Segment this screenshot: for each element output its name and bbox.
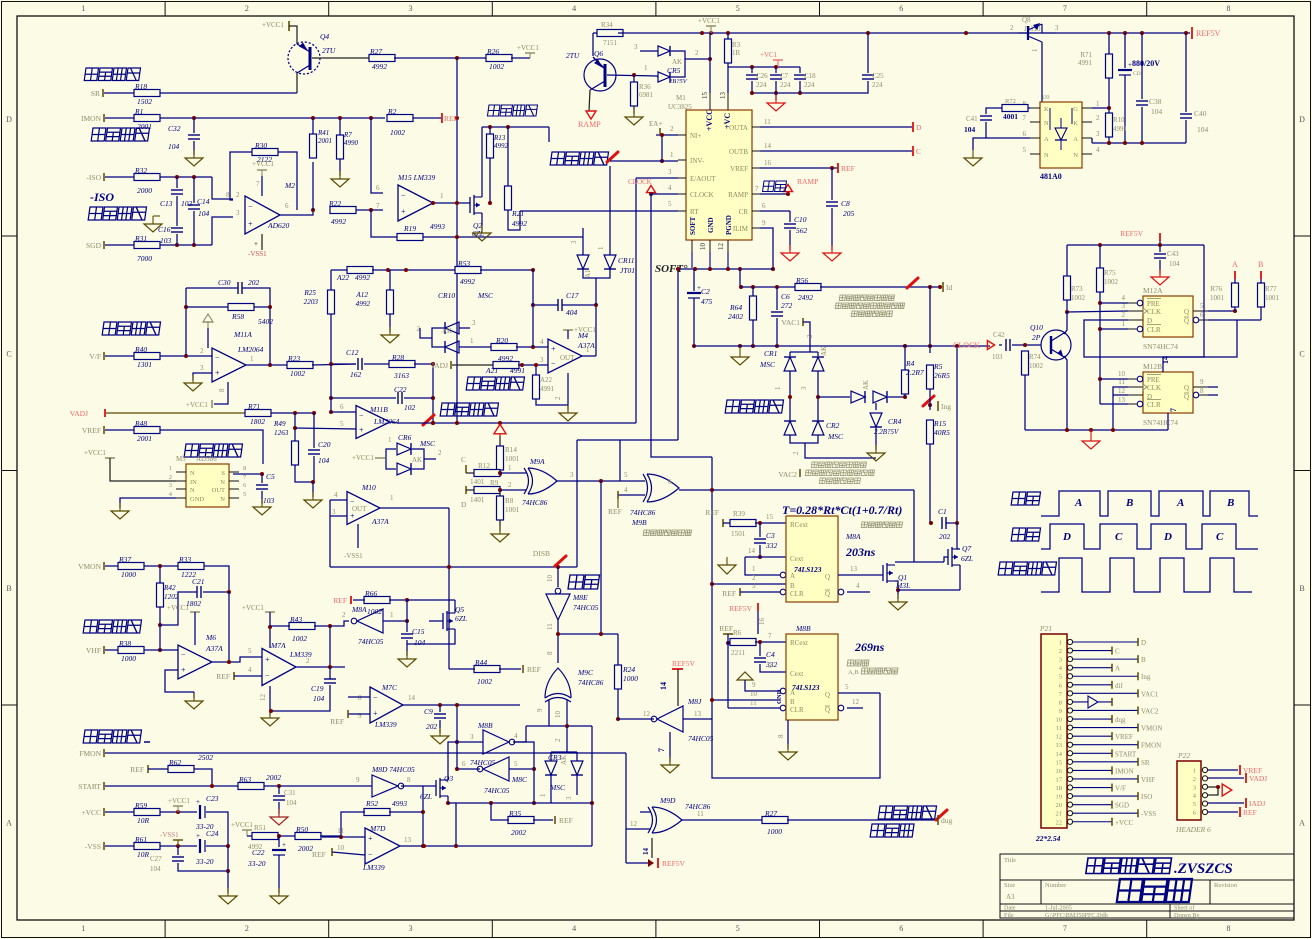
svg-text:Q: Q xyxy=(1184,317,1189,325)
wire row127 xyxy=(482,126,549,128)
wire VF wire xyxy=(105,355,134,357)
svg-text:SOFT: SOFT xyxy=(689,216,697,235)
port IADJ P22 tick xyxy=(1245,798,1247,808)
svg-text:4: 4 xyxy=(572,4,576,13)
wire C1 right xyxy=(946,522,957,524)
junction xyxy=(594,303,598,307)
op-amp M11A xyxy=(212,348,246,382)
svg-text:4001: 4001 xyxy=(1003,112,1018,121)
svg-text:R9: R9 xyxy=(490,479,499,487)
wire C27 col xyxy=(177,846,179,855)
wire R43 left xyxy=(270,625,290,627)
wire R52 right xyxy=(389,811,423,813)
svg-text:C20: C20 xyxy=(318,440,331,449)
wire ISO to pin2 xyxy=(212,177,233,199)
power +VCC1 R26 xyxy=(517,44,539,58)
svg-text:C9: C9 xyxy=(424,707,433,716)
resistor R52 xyxy=(364,809,390,816)
wire CR pin wire xyxy=(760,210,790,212)
junction xyxy=(158,648,162,652)
123a CLR bubble xyxy=(780,589,786,595)
arrow up 123b xyxy=(737,672,753,680)
svg-text:C1: C1 xyxy=(938,507,947,516)
label CJK -ISO2 xyxy=(91,189,93,191)
op-amp M4 xyxy=(548,339,582,373)
junction xyxy=(676,267,680,271)
svg-text:2000: 2000 xyxy=(137,186,152,195)
wire row590 xyxy=(898,589,960,591)
svg-text:Q: Q xyxy=(825,691,830,699)
wire VREF row xyxy=(160,430,263,464)
wire R8 col xyxy=(499,490,501,498)
IC U1 UC3825 box xyxy=(686,110,752,240)
svg-text:Cext: Cext xyxy=(790,555,803,563)
svg-text:R42: R42 xyxy=(163,584,176,592)
svg-text:1000: 1000 xyxy=(121,654,136,663)
capacitor CD1 xyxy=(1118,61,1132,75)
wire M11B out xyxy=(390,422,398,423)
M12A PRE bubble xyxy=(1137,300,1143,306)
capacitor C14 xyxy=(188,205,200,209)
svg-text:5: 5 xyxy=(736,4,740,13)
capacitor C30 xyxy=(238,282,242,294)
ground row345 stem xyxy=(739,346,741,349)
svg-text:2: 2 xyxy=(245,4,249,13)
svg-text:26R5: 26R5 xyxy=(934,371,950,380)
svg-text:3: 3 xyxy=(409,924,413,933)
wire R7 top xyxy=(339,118,341,135)
svg-text:Q: Q xyxy=(825,590,830,598)
svg-text:74HC86: 74HC86 xyxy=(578,678,604,687)
junction xyxy=(1140,141,1144,145)
svg-text:10R: 10R xyxy=(137,850,150,859)
svg-text:START: START xyxy=(78,782,101,791)
wire M4 minus gnd xyxy=(567,373,569,410)
junction xyxy=(903,395,907,399)
svg-text:+VCC: +VCC xyxy=(81,808,101,817)
IC U0 opto box xyxy=(1040,102,1082,168)
wire M4 vcc stem xyxy=(567,330,569,339)
power +VCC1 CR6 xyxy=(352,454,385,462)
wire left loop col xyxy=(329,500,331,567)
svg-text:4: 4 xyxy=(334,491,338,499)
wire EAOUT wire xyxy=(636,177,678,179)
wire R72 left xyxy=(986,108,1002,114)
xor gate M9C xyxy=(545,668,571,702)
svg-text:C25: C25 xyxy=(872,72,884,80)
xor gate M9A xyxy=(524,468,557,494)
wire R5 bot xyxy=(929,389,931,398)
svg-text:2211: 2211 xyxy=(731,649,746,657)
junction xyxy=(488,201,492,205)
junction xyxy=(929,521,933,525)
svg-text:A: A xyxy=(6,818,12,827)
P22 red arrow xyxy=(1222,784,1232,796)
svg-text:6: 6 xyxy=(376,184,380,192)
svg-text:File: File xyxy=(1004,912,1014,919)
svg-text:40R5: 40R5 xyxy=(934,428,950,437)
wire R62 left xyxy=(148,768,168,770)
junction xyxy=(866,31,870,35)
wire START wire xyxy=(105,785,238,787)
wire VF row xyxy=(160,355,212,357)
svg-text:M8C: M8C xyxy=(511,775,528,784)
wire R6 left xyxy=(728,634,731,643)
svg-text:224: 224 xyxy=(804,81,815,89)
ground C43 red xyxy=(1151,269,1169,285)
junction xyxy=(176,810,180,814)
wire CR11b top wire xyxy=(609,166,611,255)
junction xyxy=(955,344,959,348)
REF tick R44 xyxy=(522,665,524,673)
svg-text:3: 3 xyxy=(565,796,573,800)
port REF5V rail tick xyxy=(1191,27,1193,39)
junction xyxy=(726,641,730,645)
wire C7 bot xyxy=(775,81,777,100)
svg-text:M10: M10 xyxy=(361,483,376,492)
svg-text:A,B: A,B xyxy=(848,669,859,676)
svg-text:15: 15 xyxy=(766,513,774,521)
svg-text:C: C xyxy=(1299,349,1304,358)
svg-text:MSC: MSC xyxy=(827,432,844,441)
wire SOFT row xyxy=(678,268,773,270)
resistor R51 xyxy=(252,833,278,840)
junction xyxy=(311,116,315,120)
wire C25 col xyxy=(867,33,869,73)
svg-text:2: 2 xyxy=(245,924,249,933)
op-amp M2 AD620 xyxy=(245,196,280,234)
xor gate M9D xyxy=(648,807,682,833)
junction xyxy=(692,344,696,348)
svg-text:1: 1 xyxy=(1059,640,1062,647)
wire R2 to REF xyxy=(413,117,441,119)
wire C6 bot xyxy=(776,318,778,346)
wire C31 col xyxy=(278,786,280,794)
svg-text:+VCC1: +VCC1 xyxy=(84,449,106,457)
svg-text:R10: R10 xyxy=(1113,116,1125,124)
junction xyxy=(708,57,712,61)
wire R25 top xyxy=(331,269,348,271)
REF tick R6 xyxy=(723,633,733,635)
svg-text:+: + xyxy=(265,655,270,664)
svg-text:2002: 2002 xyxy=(266,773,281,782)
svg-text:4992: 4992 xyxy=(355,273,370,282)
svg-text:REF: REF xyxy=(722,589,736,598)
svg-text:224: 224 xyxy=(756,81,767,89)
svg-text:3: 3 xyxy=(752,582,756,590)
svg-text:OUT: OUT xyxy=(212,487,225,494)
svg-text:1: 1 xyxy=(597,246,605,250)
UC3825 pin15 stub xyxy=(709,93,711,110)
wire C20 col xyxy=(313,413,315,448)
ground caps red xyxy=(767,95,785,111)
svg-text:7: 7 xyxy=(1063,4,1067,13)
label CJK guo-ya-bao-hu xyxy=(83,620,141,633)
svg-text:R20: R20 xyxy=(495,336,508,345)
wire CR4 to R4 xyxy=(888,396,905,398)
svg-text:-VSS1: -VSS1 xyxy=(248,250,267,258)
resistor A12 xyxy=(387,290,394,314)
svg-text:1002: 1002 xyxy=(489,62,504,71)
note 123b pre xyxy=(847,660,869,666)
wire col592 xyxy=(591,726,593,846)
wire 123a Q out xyxy=(838,574,883,576)
junction xyxy=(710,488,714,492)
svg-text:Q5: Q5 xyxy=(455,605,464,614)
wire R21 bot to RT xyxy=(508,210,520,230)
wire CLR row 123a xyxy=(740,591,780,593)
junction xyxy=(405,619,409,623)
svg-text:A: A xyxy=(1115,665,1120,673)
wire C4 bot xyxy=(760,664,786,672)
svg-text:1: 1 xyxy=(1031,48,1039,52)
svg-text:11: 11 xyxy=(764,118,771,126)
svg-text:A37A: A37A xyxy=(205,644,223,653)
wire R27 to R26 xyxy=(394,57,487,59)
wire R3 bot xyxy=(727,63,729,67)
svg-text:R48: R48 xyxy=(134,419,147,428)
resistor R9 xyxy=(474,487,500,494)
junction xyxy=(498,421,502,425)
wire col534 down xyxy=(533,769,535,803)
svg-text:332: 332 xyxy=(765,541,778,550)
junction xyxy=(1158,243,1162,247)
svg-text:CLK: CLK xyxy=(1147,308,1161,316)
wire VHF wire xyxy=(105,649,118,651)
wire CLOCK wire xyxy=(651,193,678,195)
wire C13-C16 col xyxy=(176,196,178,226)
wire DISB row xyxy=(330,566,577,568)
junction xyxy=(192,175,196,179)
wire A22v col xyxy=(535,365,537,375)
junction xyxy=(738,344,742,348)
svg-text:3: 3 xyxy=(200,364,204,372)
port REF5V M9D tick xyxy=(657,858,659,868)
wire CR6 area wires xyxy=(595,278,597,305)
svg-text:-VSS: -VSS xyxy=(85,842,101,851)
svg-text:9: 9 xyxy=(1059,708,1062,715)
wire C32 to gnd xyxy=(193,141,195,155)
svg-text:+VCC1: +VCC1 xyxy=(167,604,189,612)
junction xyxy=(1098,301,1102,305)
wire C2 col top xyxy=(693,269,695,291)
svg-text:5: 5 xyxy=(668,200,672,208)
junction xyxy=(896,588,900,592)
junction xyxy=(227,660,231,664)
MOSFET Q1 xyxy=(883,563,895,583)
svg-text:13: 13 xyxy=(719,92,727,100)
wire C18 bot xyxy=(799,81,801,93)
svg-text:3: 3 xyxy=(169,482,172,489)
svg-text:1: 1 xyxy=(774,386,782,390)
junction xyxy=(531,345,535,349)
wire R66 left xyxy=(353,599,365,601)
svg-text:8: 8 xyxy=(358,694,362,702)
svg-text:2502: 2502 xyxy=(198,753,213,762)
resistor R33 xyxy=(178,555,204,579)
opto pin stubs xyxy=(1030,107,1040,109)
wire C40 col xyxy=(1185,33,1187,112)
wire Q10 collector xyxy=(1064,312,1067,334)
wire M7A minus in xyxy=(234,675,262,677)
svg-text:A22: A22 xyxy=(540,376,553,384)
port C tick xyxy=(912,146,914,156)
label CJK chao-qian xyxy=(1011,528,1040,541)
svg-text:Q4: Q4 xyxy=(320,32,329,41)
svg-text:2002: 2002 xyxy=(511,828,526,837)
svg-text:SR: SR xyxy=(91,89,100,98)
svg-text:+VCC1: +VCC1 xyxy=(252,160,274,168)
svg-text:10: 10 xyxy=(554,711,562,719)
svg-text:1: 1 xyxy=(169,465,172,472)
svg-text:2402: 2402 xyxy=(728,312,743,321)
junction xyxy=(498,488,502,492)
diode CR5b xyxy=(658,72,670,82)
wire R44 left xyxy=(449,668,475,670)
junction xyxy=(431,201,435,205)
wire VSS row xyxy=(160,845,197,847)
wire C20 bot xyxy=(313,456,315,482)
junction xyxy=(405,598,409,602)
junction xyxy=(386,268,390,272)
M12A Qb bubble xyxy=(1193,317,1199,323)
svg-text:CR11: CR11 xyxy=(618,256,635,265)
-VSS1 bar xyxy=(177,840,179,846)
junction xyxy=(708,267,712,271)
svg-text:R71: R71 xyxy=(1080,51,1092,59)
svg-text:SN74HC74: SN74HC74 xyxy=(1143,342,1178,351)
svg-text:4991: 4991 xyxy=(540,385,555,393)
wire M10 vss stem xyxy=(357,524,359,548)
junction xyxy=(758,640,762,644)
resistor R76 xyxy=(1232,283,1239,307)
wire M7C out xyxy=(403,704,520,706)
svg-text:3: 3 xyxy=(570,240,578,244)
svg-text:202: 202 xyxy=(426,722,438,731)
svg-text:1: 1 xyxy=(586,346,590,354)
svg-text:6: 6 xyxy=(668,478,672,486)
note text 2a xyxy=(811,462,866,468)
junction xyxy=(268,625,272,629)
svg-text:M11B: M11B xyxy=(369,405,388,414)
svg-text:M12B: M12B xyxy=(1143,362,1162,371)
svg-text:7000: 7000 xyxy=(137,254,152,263)
svg-text:33-20: 33-20 xyxy=(195,857,214,866)
svg-text:R66: R66 xyxy=(364,589,377,598)
wire CR3a tail xyxy=(550,775,552,803)
resistor R56 xyxy=(795,276,821,302)
svg-text:8: 8 xyxy=(1227,924,1231,933)
svg-text:GND: GND xyxy=(190,496,204,503)
wire M12A D loop xyxy=(1084,320,1237,357)
MOSFET Q5 xyxy=(443,611,455,631)
junction xyxy=(192,243,196,247)
svg-text:6: 6 xyxy=(899,924,903,933)
wire R42 col xyxy=(159,566,161,583)
svg-text:G:\PFC\BM350PFC.Ddb: G:\PFC\BM350PFC.Ddb xyxy=(1045,912,1108,919)
wire R35 left xyxy=(491,803,509,820)
svg-text:4: 4 xyxy=(514,732,518,740)
svg-text:1: 1 xyxy=(440,192,444,200)
junction xyxy=(329,410,333,414)
resistor R15 xyxy=(927,420,934,444)
svg-text:+VCC1: +VCC1 xyxy=(186,401,208,409)
wire C17 right xyxy=(562,304,596,306)
wire R35 right xyxy=(533,819,553,821)
svg-text:D: D xyxy=(1147,317,1152,325)
opto internal wire xyxy=(1049,108,1051,130)
svg-text:7: 7 xyxy=(755,185,759,193)
svg-text:FMON: FMON xyxy=(79,749,101,758)
svg-text:RT: RT xyxy=(690,208,699,216)
wire R50 right xyxy=(320,835,341,837)
junction xyxy=(431,421,435,425)
wire AD586 pin8 wire xyxy=(233,473,262,475)
wire R71 col xyxy=(1108,33,1110,54)
label CJK zhi-hou xyxy=(1011,492,1040,505)
UC3825 pin13 stub xyxy=(727,93,729,110)
svg-text:Date: Date xyxy=(1004,905,1016,912)
op-amp M7C xyxy=(370,687,403,723)
wire M8B in xyxy=(457,741,483,743)
inverter M8A xyxy=(351,609,383,633)
MOSFET Q2 xyxy=(470,195,482,215)
svg-text:1000: 1000 xyxy=(767,827,782,836)
wire C10 bot xyxy=(789,230,791,250)
capacitor C27 xyxy=(172,857,184,861)
wire ff top rail xyxy=(1067,244,1204,246)
capacitor C20 xyxy=(308,450,320,454)
M12B Qb bubble xyxy=(1193,392,1199,398)
wire R43 col down xyxy=(329,626,331,667)
diode CR10b xyxy=(445,341,459,353)
REF tick M9B xyxy=(617,491,619,499)
svg-text:REF5V: REF5V xyxy=(729,604,753,613)
power +VCC1 rail xyxy=(698,17,720,33)
wire M11A pin8 stem xyxy=(214,382,228,404)
junction xyxy=(774,65,778,69)
wire R12 to xor xyxy=(500,472,526,474)
junction xyxy=(710,582,714,586)
svg-text:IADJ: IADJ xyxy=(1249,799,1265,808)
wire col618 xyxy=(617,634,619,665)
wire Q8 emitter drop xyxy=(1041,42,1043,108)
wire pin6 wire M15 xyxy=(371,118,383,193)
svg-text:A1: A1 xyxy=(584,269,592,278)
junction xyxy=(311,480,315,484)
svg-text:R23: R23 xyxy=(287,354,300,363)
wire CR5 pin2 wire xyxy=(685,58,710,60)
svg-text:R43: R43 xyxy=(289,615,302,624)
junction xyxy=(1098,377,1102,381)
resistor R77 xyxy=(1258,283,1265,307)
wire R33 right xyxy=(204,566,229,592)
123b A bubble xyxy=(780,688,786,694)
junction xyxy=(726,31,730,35)
svg-text:C: C xyxy=(1216,531,1224,543)
wire M7D out xyxy=(400,845,592,847)
wire M7A gnd xyxy=(269,686,271,715)
svg-text:2: 2 xyxy=(806,334,814,338)
junction xyxy=(739,285,743,289)
svg-text:1: 1 xyxy=(470,337,474,345)
UC3825 pin stubs xyxy=(678,134,686,136)
svg-text:9: 9 xyxy=(356,776,360,784)
wire R27b right xyxy=(787,819,938,821)
svg-text:R31: R31 xyxy=(134,234,147,243)
svg-text:AK: AK xyxy=(820,346,828,356)
junction xyxy=(455,740,459,744)
